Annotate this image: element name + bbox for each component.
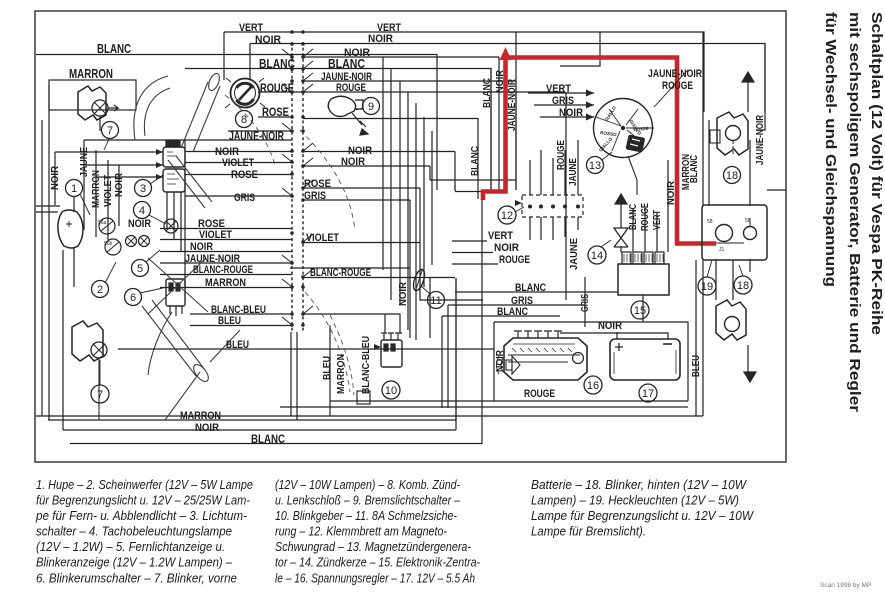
- svg-text:18: 18: [726, 170, 738, 182]
- svg-text:NOIR: NOIR: [341, 156, 365, 168]
- svg-text:NOIR: NOIR: [398, 281, 409, 306]
- svg-text:Batterie – 18. Blinker, hinten: Batterie – 18. Blinker, hinten (12V – 10…: [531, 477, 747, 492]
- svg-text:GRIS: GRIS: [552, 95, 574, 107]
- svg-text:NOIR: NOIR: [494, 242, 519, 254]
- svg-text:VIOLET: VIOLET: [306, 232, 339, 244]
- svg-text:(12V – 1.2W) – 5. Fernlichtanz: (12V – 1.2W) – 5. Fernlichtanzeige u.: [36, 539, 225, 554]
- svg-text:ROUGE: ROUGE: [260, 81, 294, 95]
- svg-text:BLANC-ROUGE: BLANC-ROUGE: [310, 267, 371, 279]
- svg-text:14: 14: [591, 250, 603, 262]
- svg-text:MARRON: MARRON: [205, 277, 246, 289]
- svg-text:ROSE: ROSE: [304, 178, 331, 190]
- svg-text:4: 4: [139, 205, 145, 217]
- svg-text:NOIR: NOIR: [255, 34, 281, 46]
- svg-text:BLANC: BLANC: [328, 57, 365, 71]
- svg-text:ROUGE: ROUGE: [556, 140, 567, 170]
- svg-text:ROUGE: ROUGE: [640, 203, 651, 231]
- svg-text:8: 8: [241, 114, 247, 126]
- svg-text:VIOLET: VIOLET: [199, 229, 232, 241]
- svg-text:NOIR: NOIR: [190, 241, 213, 253]
- svg-text:Schwungrad – 13. Magnetzünderg: Schwungrad – 13. Magnetzündergenera-: [275, 539, 471, 554]
- svg-text:NOIR: NOIR: [559, 107, 583, 119]
- svg-text:NOIR: NOIR: [114, 172, 125, 197]
- svg-text:1: 1: [71, 183, 77, 195]
- svg-text:10. Blinkgeber – 11. 8A Schmel: 10. Blinkgeber – 11. 8A Schmelzsiche-: [275, 508, 457, 523]
- svg-text:NOIR: NOIR: [666, 180, 677, 205]
- svg-text:NOIR: NOIR: [598, 320, 622, 332]
- svg-text:JAUNE-NOIR: JAUNE-NOIR: [755, 114, 766, 165]
- svg-text:BLANC: BLANC: [689, 155, 700, 183]
- svg-text:mit sechspoligem Generator, Ba: mit sechspoligem Generator, Batterie und…: [846, 12, 863, 412]
- svg-text:Blinkeranzeige (12V – 1.2W Lam: Blinkeranzeige (12V – 1.2W Lampen) –: [36, 555, 233, 570]
- svg-text:GRIS: GRIS: [304, 190, 326, 202]
- svg-text:BLEU: BLEU: [691, 355, 702, 377]
- svg-text:6. Blinkerumschalter – 7. Blin: 6. Blinkerumschalter – 7. Blinker, vorne: [36, 571, 237, 586]
- svg-text:u. Lenkschloß – 9. Bremslichts: u. Lenkschloß – 9. Bremslichtschalter –: [275, 493, 461, 508]
- svg-text:für Wechsel- und Gleichspannun: für Wechsel- und Gleichspannung: [822, 12, 839, 287]
- svg-text:Lampen) – 19. Heckleuchten (12: Lampen) – 19. Heckleuchten (12V – 5W): [531, 493, 739, 508]
- svg-text:56b: 56b: [104, 241, 113, 247]
- svg-text:VIOLET: VIOLET: [222, 157, 254, 169]
- svg-text:ROUGE: ROUGE: [524, 388, 555, 400]
- svg-text:NOIR: NOIR: [50, 165, 61, 190]
- svg-text:MARRON: MARRON: [69, 67, 113, 81]
- svg-text:VIOLET: VIOLET: [103, 175, 114, 207]
- svg-text:JAUNE-NOIR: JAUNE-NOIR: [648, 68, 702, 80]
- svg-text:9: 9: [368, 101, 374, 113]
- svg-text:pe für Fern- u. Abblendlicht –: pe für Fern- u. Abblendlicht – 3. Lichtu…: [35, 508, 247, 523]
- svg-text:Scan 1998 by MP: Scan 1998 by MP: [820, 582, 871, 589]
- svg-text:BLANC: BLANC: [470, 146, 481, 176]
- svg-text:7: 7: [107, 125, 113, 137]
- svg-text:16: 16: [587, 380, 599, 392]
- svg-text:le – 16. Spannungsregler – 17.: le – 16. Spannungsregler – 17. 12V – 5.5…: [275, 571, 475, 586]
- svg-text:BLANC: BLANC: [482, 78, 493, 108]
- svg-text:MARRON: MARRON: [336, 354, 347, 394]
- svg-text:NOIR: NOIR: [195, 422, 219, 434]
- svg-text:J1: J1: [719, 247, 725, 253]
- svg-text:BLEU: BLEU: [322, 356, 333, 380]
- svg-text:GRIS: GRIS: [580, 294, 591, 312]
- svg-text:2: 2: [97, 284, 103, 296]
- svg-text:56a: 56a: [98, 220, 107, 226]
- svg-text:BLANC-BLEU: BLANC-BLEU: [361, 336, 372, 394]
- svg-text:Schaltplan (12 Volt) für Vespa: Schaltplan (12 Volt) für Vespa PK-Reihe: [868, 12, 885, 335]
- svg-text:17: 17: [642, 388, 654, 400]
- svg-text:schalter – 4. Tachobeleuchtung: schalter – 4. Tachobeleuchtungslampe: [36, 524, 232, 539]
- svg-text:ROUGE: ROUGE: [662, 80, 693, 92]
- svg-text:NOIR: NOIR: [495, 349, 506, 372]
- svg-text:für Begrenzungslicht u. 12V –: für Begrenzungslicht u. 12V – 25/25W Lam…: [36, 493, 250, 508]
- svg-text:MARRON: MARRON: [91, 170, 102, 208]
- svg-text:3: 3: [140, 183, 146, 195]
- svg-text:12: 12: [501, 210, 513, 222]
- svg-text:19: 19: [701, 281, 713, 293]
- svg-text:5: 5: [137, 263, 143, 275]
- svg-text:7: 7: [97, 389, 103, 401]
- svg-text:BLANC: BLANC: [628, 204, 639, 230]
- svg-text:GRIS: GRIS: [234, 192, 255, 204]
- svg-text:BLANC-ROUGE: BLANC-ROUGE: [193, 264, 253, 276]
- svg-text:NOIR: NOIR: [495, 69, 506, 93]
- svg-text:ROSE: ROSE: [262, 105, 289, 119]
- svg-text:MARRON: MARRON: [180, 410, 221, 422]
- svg-text:BLEU: BLEU: [218, 315, 241, 327]
- svg-text:NOIR: NOIR: [128, 218, 151, 230]
- svg-text:rung – 12. Klemmbrett am Magne: rung – 12. Klemmbrett am Magneto-: [275, 524, 447, 539]
- svg-text:58: 58: [707, 219, 713, 225]
- svg-text:15: 15: [634, 305, 646, 317]
- svg-text:JAUNE: JAUNE: [568, 158, 579, 186]
- svg-text:VERT: VERT: [652, 210, 663, 230]
- svg-text:11: 11: [430, 295, 441, 307]
- svg-text:BLANC: BLANC: [251, 432, 285, 446]
- svg-text:BLANC: BLANC: [497, 306, 528, 318]
- svg-text:BLANC: BLANC: [259, 57, 295, 71]
- svg-text:BLEU: BLEU: [226, 339, 249, 351]
- svg-text:NOIR: NOIR: [368, 33, 393, 45]
- svg-text:JAUNE-NOIR: JAUNE-NOIR: [507, 78, 518, 131]
- svg-text:JAUNE: JAUNE: [569, 238, 580, 270]
- svg-text:VERT: VERT: [488, 230, 513, 242]
- svg-text:tor – 14. Zündkerze – 15. Elek: tor – 14. Zündkerze – 15. Elektronik-Zen…: [275, 555, 480, 570]
- svg-text:JAUNE-NOIR: JAUNE-NOIR: [229, 129, 284, 143]
- svg-text:VERT: VERT: [546, 83, 571, 95]
- svg-text:ROUGE: ROUGE: [336, 82, 366, 94]
- svg-text:18: 18: [737, 280, 749, 292]
- svg-text:Lampe für Begrenzungslicht u.: Lampe für Begrenzungslicht u. 12V – 10W: [531, 508, 754, 523]
- svg-text:13: 13: [589, 160, 601, 172]
- svg-text:58: 58: [745, 218, 751, 224]
- svg-text:6: 6: [130, 292, 136, 304]
- svg-text:ROUGE: ROUGE: [499, 254, 530, 266]
- svg-text:(12V – 10W Lampen) – 8. Komb.: (12V – 10W Lampen) – 8. Komb. Zünd-: [275, 477, 460, 492]
- svg-text:BLANC: BLANC: [515, 282, 546, 294]
- svg-text:BLANC: BLANC: [97, 42, 131, 56]
- svg-text:10: 10: [385, 385, 397, 397]
- svg-text:1. Hupe – 2. Scheinwerfer (12V: 1. Hupe – 2. Scheinwerfer (12V – 5W Lamp…: [36, 477, 253, 492]
- svg-text:JAUNE: JAUNE: [79, 147, 90, 177]
- svg-text:Lampe für Bremslicht).: Lampe für Bremslicht).: [531, 524, 646, 539]
- svg-text:VERT: VERT: [239, 22, 263, 34]
- svg-text:ROSE: ROSE: [231, 169, 258, 181]
